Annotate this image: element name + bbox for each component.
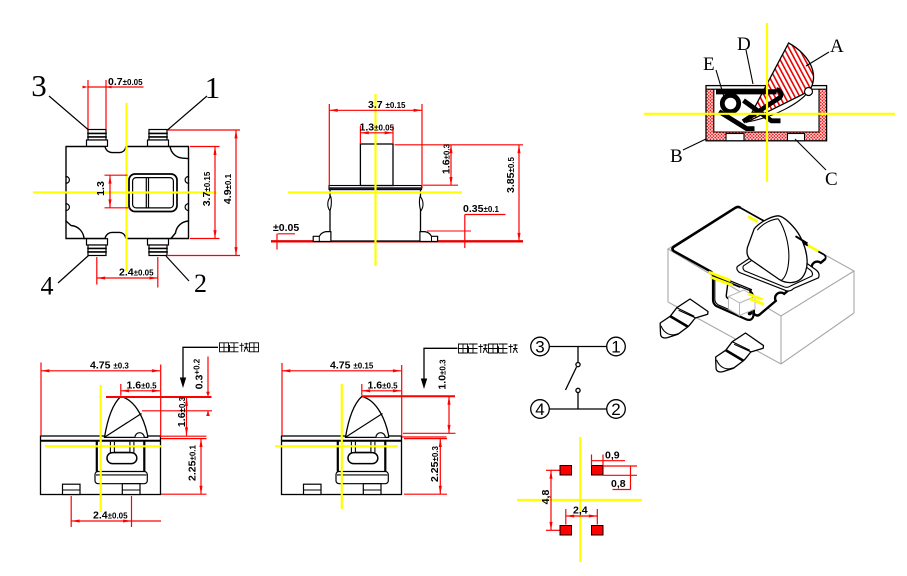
housing inner lines xyxy=(706,89,827,132)
svg-text:1: 1 xyxy=(611,338,620,357)
centerline horizontal xyxy=(517,499,642,501)
wire 4-2 xyxy=(549,408,606,410)
side nub right upper xyxy=(185,177,188,184)
base box left vertical edge xyxy=(667,249,669,302)
contact position line xyxy=(142,410,212,412)
svg-text:1: 1 xyxy=(205,70,221,105)
button hole rim (outer) xyxy=(737,243,819,291)
base box bottom edges xyxy=(668,302,854,364)
dimension 0.3 +0.2 (contact travel) xyxy=(207,357,209,416)
dimension 1.3 xyxy=(105,175,130,208)
side nub right lower xyxy=(185,204,188,211)
contact mechanism (black) : ring xyxy=(722,95,738,111)
tray xyxy=(336,472,388,484)
housing bottom wall (hatched) xyxy=(706,132,826,141)
pocket walls xyxy=(337,441,339,472)
pad bottom-left xyxy=(560,526,572,536)
edge re-appear segment xyxy=(796,236,808,243)
dimension 3.85±0.5 (overall height) xyxy=(518,145,520,242)
dimension 0,9 (pad width) xyxy=(592,455,626,466)
button hole outer xyxy=(129,174,177,212)
svg-text:E: E xyxy=(703,54,715,75)
shaft legs xyxy=(351,442,375,453)
dimension 2,4 (pad column pitch) xyxy=(566,509,598,525)
base box near vertical edge xyxy=(780,316,782,364)
button wedge xyxy=(747,216,807,283)
pad top-left xyxy=(560,466,572,476)
pad bottom-right xyxy=(592,526,604,536)
pocket (plate tab over front face) xyxy=(711,272,754,320)
svg-text:B: B xyxy=(670,146,683,167)
pin 2 (bottom-right) xyxy=(148,239,169,256)
terminal 1 circle xyxy=(607,337,626,356)
svg-text:3: 3 xyxy=(31,68,47,103)
contact mechanism hook and arm xyxy=(743,90,781,122)
svg-text:1.0±0.3: 1.0±0.3 xyxy=(437,359,449,390)
centerline vertical xyxy=(766,23,768,182)
body xyxy=(330,190,421,242)
pocket yellow centerline dashes pair 2 xyxy=(749,294,763,300)
svg-text:4,8: 4,8 xyxy=(540,490,552,505)
gull-wing lead upper xyxy=(660,299,708,338)
dimension 1.6±0.5 (fan top width) xyxy=(121,384,161,396)
base box top face xyxy=(668,207,854,317)
cone lower edge xyxy=(747,92,809,123)
svg-text:A: A xyxy=(830,36,844,57)
seating plane line xyxy=(271,240,523,242)
dimension 1.6±0.3 (stem height) xyxy=(395,145,524,186)
terminal right (white) xyxy=(788,134,805,141)
foot left xyxy=(304,484,322,494)
housing left wall (hatched) xyxy=(706,89,713,141)
centerline vertical xyxy=(100,385,102,512)
dimension 3.7±0.15 (top) xyxy=(329,104,422,189)
wire from lower contact xyxy=(577,393,579,410)
dimension 1.0±0.3 (max travel) xyxy=(448,396,450,433)
schematic pin numbers xyxy=(535,338,620,420)
dimension 4.75±0.3 xyxy=(41,363,161,437)
svg-text:4.75 ±0.15: 4.75 ±0.15 xyxy=(330,360,374,372)
cover plate line xyxy=(282,440,402,442)
svg-text:D: D xyxy=(737,34,751,55)
side tab left xyxy=(328,197,332,211)
pocket left wall inner line xyxy=(715,276,734,312)
body outline xyxy=(66,147,189,239)
yellow dash on top-right edge (left) xyxy=(748,217,758,222)
svg-text:1.6±0.5: 1.6±0.5 xyxy=(368,380,399,392)
svg-text:2.4±0.05: 2.4±0.05 xyxy=(93,510,128,522)
contact travel label xyxy=(220,343,259,352)
pocket walls xyxy=(96,441,98,472)
centerline horizontal xyxy=(288,191,462,193)
svg-text:1.3: 1.3 xyxy=(95,181,107,196)
pad top-right xyxy=(592,466,604,476)
pin 3 (top-left) xyxy=(87,130,108,147)
tray xyxy=(95,472,147,484)
plate front-left edge (to pocket) xyxy=(673,251,714,277)
svg-text:1.3±0.05: 1.3±0.05 xyxy=(360,122,395,134)
pin 1 (top-right) xyxy=(148,130,169,147)
max travel label xyxy=(459,344,518,353)
contact travel callout arrow xyxy=(183,347,218,381)
svg-text:3.85±0.5: 3.85±0.5 xyxy=(505,156,517,193)
centerline horizontal xyxy=(644,113,895,115)
svg-text:4: 4 xyxy=(535,400,544,419)
plate upper-right edge (thin, behind wedge) xyxy=(740,208,825,259)
dimension 2.4±0.05 (feet pitch) xyxy=(71,496,161,527)
shaft capsule xyxy=(107,453,137,464)
svg-text:1.6±0.5: 1.6±0.5 xyxy=(127,380,158,392)
svg-text:3.7 ±0.15: 3.7 ±0.15 xyxy=(368,99,406,111)
corner relief bottom-right xyxy=(171,221,189,239)
dimension 0.7±0.05 xyxy=(83,80,144,129)
svg-text:4.9±0.1: 4.9±0.1 xyxy=(222,173,234,204)
cone pivot circle xyxy=(805,88,813,96)
corner relief top-right xyxy=(170,147,189,159)
max travel callout arrow xyxy=(424,348,458,382)
svg-text:0,9: 0,9 xyxy=(605,450,620,462)
plate thick front-right edge with scallops xyxy=(753,259,826,316)
svg-text:4.75 ±0.3: 4.75 ±0.3 xyxy=(90,360,129,372)
gull-wing lead left xyxy=(313,232,331,242)
dimension 2.25±0.3 xyxy=(404,439,447,495)
body xyxy=(282,436,402,495)
yellow dash on top-right edge (right) xyxy=(808,245,819,251)
centerline horizontal xyxy=(34,191,216,193)
plate thick upper-left edge xyxy=(672,207,740,251)
side tab right xyxy=(419,197,423,211)
contact mechanism top bar xyxy=(716,89,777,94)
button divider xyxy=(145,178,147,208)
svg-text:2,4: 2,4 xyxy=(573,505,588,517)
shaft capsule xyxy=(348,453,378,464)
centerline vertical xyxy=(374,94,376,266)
wedge top ridge inner line xyxy=(757,219,778,230)
foot left xyxy=(63,484,81,494)
side nub left lower xyxy=(66,204,69,211)
shaft legs xyxy=(110,442,133,453)
dimension 3.7±0.15 (right) xyxy=(190,147,220,239)
dimension 2.4±0.05 (bottom) xyxy=(97,257,158,288)
actuator fan xyxy=(105,397,148,438)
gull-wing lead lower xyxy=(716,333,764,372)
centerline vertical xyxy=(341,384,343,509)
window left wall with curl xyxy=(726,284,729,299)
svg-text:2.25±0.1: 2.25±0.1 xyxy=(187,444,199,481)
svg-text:3.7±0.15: 3.7±0.15 xyxy=(201,171,213,206)
dimension 1.3±0.05 (stem width) xyxy=(360,126,393,144)
lower contact xyxy=(576,388,580,392)
pocket yellow centerline dashes pair 1 xyxy=(709,272,765,304)
svg-text:2: 2 xyxy=(611,400,620,419)
terminal 4 circle xyxy=(531,400,550,419)
body top extension xyxy=(160,435,207,437)
centerline horizontal xyxy=(275,445,398,447)
fan base bump xyxy=(376,433,385,438)
fan inner radial xyxy=(346,414,383,438)
svg-text:0.35±0.1: 0.35±0.1 xyxy=(463,203,500,215)
cover plate xyxy=(329,186,422,190)
contact mechanism cross arm xyxy=(744,101,781,121)
svg-text:2.25±0.3: 2.25±0.3 xyxy=(429,445,441,482)
terminal 3 circle xyxy=(531,337,550,356)
centerline vertical xyxy=(579,437,581,562)
svg-text:3: 3 xyxy=(535,338,544,357)
body top extension xyxy=(402,436,447,438)
pressed position line xyxy=(403,432,456,434)
svg-text:0.7±0.05: 0.7±0.05 xyxy=(108,76,143,88)
free position line xyxy=(106,396,212,398)
svg-text:2.4±0.05: 2.4±0.05 xyxy=(119,267,154,279)
pin 4 (bottom-left) xyxy=(87,239,108,256)
plate fold line across pocket top xyxy=(713,274,752,290)
dimension 2.25±0.1 (body height) xyxy=(161,439,207,495)
base box right vertical edge xyxy=(853,271,855,313)
foot right xyxy=(363,484,381,495)
dimension 1.6±0.5 xyxy=(362,384,402,396)
svg-text:±0.05: ±0.05 xyxy=(273,222,299,234)
wedge face divider curve xyxy=(778,219,789,280)
wire to upper contact xyxy=(577,347,579,363)
corner relief bottom-left xyxy=(66,221,84,239)
svg-text:0.3+0.2: 0.3+0.2 xyxy=(193,358,206,389)
centerline vertical xyxy=(125,104,127,270)
housing outline xyxy=(706,86,827,141)
housing right wall (hatched) xyxy=(819,89,826,141)
tray lip xyxy=(96,474,146,476)
switch arm xyxy=(566,367,577,390)
side nub left upper xyxy=(66,177,69,184)
tolerance ±0.05 (seating plane) xyxy=(277,234,295,250)
fan base bump xyxy=(135,433,144,438)
shelf slab (gray) xyxy=(729,290,756,316)
cover plate (fill) xyxy=(672,207,825,316)
button collar rim (inner) xyxy=(743,246,813,287)
svg-text:C: C xyxy=(825,169,838,190)
svg-text:1.6±0.3: 1.6±0.3 xyxy=(441,143,453,174)
svg-text:4: 4 xyxy=(41,272,54,301)
dimension 1.6±0.3 (fan height) xyxy=(186,398,188,436)
dimension 0,8 (pad height) xyxy=(603,466,637,490)
button hole inner xyxy=(133,178,174,208)
foot right xyxy=(122,484,140,495)
stem (button) xyxy=(360,144,393,186)
cover plate line xyxy=(41,440,161,442)
contact mechanism leg xyxy=(719,112,755,129)
tray lip xyxy=(337,474,387,476)
centerline horizontal xyxy=(45,445,162,447)
wire 3-1 xyxy=(549,346,606,348)
svg-text:0,8: 0,8 xyxy=(611,478,626,490)
fan inner radial xyxy=(105,414,142,438)
free position line xyxy=(362,395,455,397)
dimension 4.75±0.15 xyxy=(282,363,402,436)
gull-wing lead right xyxy=(420,232,438,242)
actuator fan xyxy=(346,397,389,438)
svg-text:1.6±0.3: 1.6±0.3 xyxy=(176,396,188,427)
terminal 2 circle xyxy=(607,400,626,419)
body xyxy=(41,436,161,495)
plunger cone (hatched fan) xyxy=(747,43,814,122)
dimension 0.35±0.1 (lead thickness) xyxy=(427,215,506,249)
window right wall (thick) xyxy=(750,289,752,314)
upper contact xyxy=(576,363,580,367)
dimension 4.9±0.1 (far right) xyxy=(168,130,240,256)
svg-text:2: 2 xyxy=(194,269,207,298)
terminal left (white) xyxy=(726,134,744,141)
dimension 4,8 (pad row pitch) xyxy=(546,470,560,530)
